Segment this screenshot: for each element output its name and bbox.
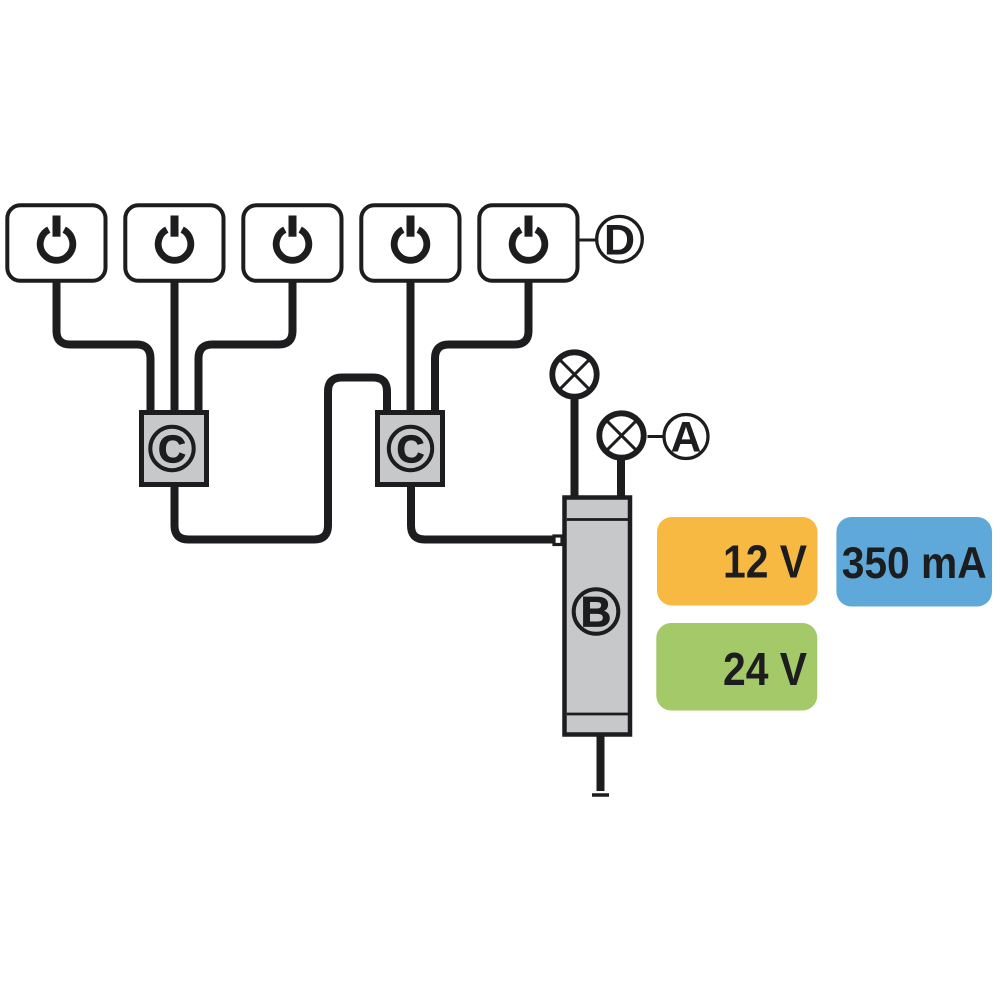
node A <box>664 414 708 461</box>
svg-text:D: D <box>604 216 635 264</box>
node D <box>597 216 643 264</box>
wire driver B mains lead <box>597 735 605 791</box>
svg-text:C: C <box>158 429 185 471</box>
svg-text:C: C <box>397 429 424 471</box>
label 350 mA (blue) <box>836 517 992 607</box>
switch S2 <box>125 205 223 280</box>
wire from lamp E1 to driver B <box>571 395 579 500</box>
svg-text:12 V: 12 V <box>723 536 807 588</box>
wire from lamp E2 to driver B <box>617 457 625 500</box>
wire from switch S3 to controller C1 <box>199 280 293 412</box>
wire from switch S2 to controller C1 <box>171 280 179 412</box>
driver B body <box>565 498 631 735</box>
wire from switch S4 to controller C2 <box>407 280 415 412</box>
wire from switch S5 to controller C2 <box>435 280 529 412</box>
svg-text:24 V: 24 V <box>723 643 807 695</box>
svg-text:350 mA: 350 mA <box>842 539 987 588</box>
label 24 V (green) <box>656 623 817 711</box>
switch S1 <box>7 205 105 280</box>
mains lead end tick <box>592 793 609 797</box>
label 12 V (orange) <box>657 517 818 606</box>
controller C1 <box>142 413 207 485</box>
svg-text:A: A <box>671 414 702 461</box>
lamp E2 <box>599 413 643 457</box>
switch S4 <box>361 205 459 280</box>
wire from switch S1 to controller C1 <box>57 280 151 412</box>
lamp E1 <box>552 352 596 396</box>
switch S5 <box>479 205 577 280</box>
switch S3 <box>243 205 341 280</box>
connector line to node D <box>580 239 598 242</box>
connector line to node A <box>648 435 665 438</box>
controller C2 <box>378 413 443 485</box>
svg-text:B: B <box>581 589 612 636</box>
input connector nub on driver B <box>554 536 562 545</box>
wire from controller C2 output to driver B input <box>411 485 556 540</box>
wire from controller C1 output to controller C2 input <box>175 378 388 540</box>
